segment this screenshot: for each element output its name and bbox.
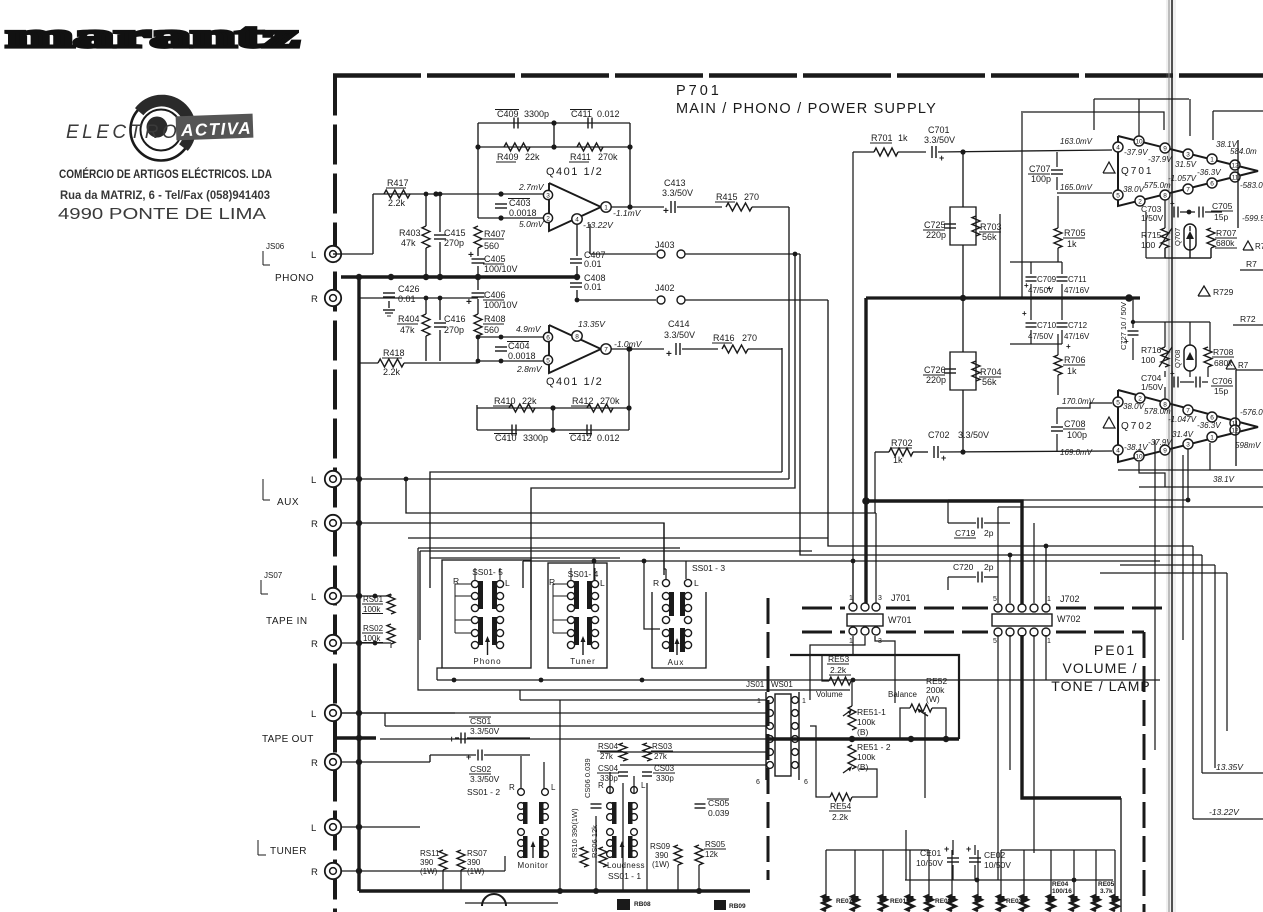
svg-text:RE03: RE03 bbox=[1006, 898, 1023, 905]
svg-text:J701: J701 bbox=[891, 593, 911, 603]
svg-text:TAPE OUT: TAPE OUT bbox=[262, 734, 314, 745]
volume wires bbox=[822, 636, 853, 681]
svg-text:2.2k: 2.2k bbox=[388, 198, 406, 208]
marantz logo bbox=[6, 18, 299, 55]
svg-text:3: 3 bbox=[1186, 151, 1190, 158]
heavy bus right vertical bbox=[864, 298, 867, 603]
monitor loudness outer box bbox=[505, 780, 648, 876]
svg-text:38.0V: 38.0V bbox=[1123, 185, 1145, 194]
switch SS01-4 left stubs bbox=[553, 583, 567, 585]
top dashed border bbox=[333, 73, 1263, 78]
switch Loudness arrow bbox=[621, 843, 623, 858]
svg-text:0.0018: 0.0018 bbox=[509, 208, 537, 218]
svg-text:5: 5 bbox=[993, 638, 997, 645]
svg-text:+: + bbox=[1066, 342, 1071, 351]
capacitor C416 bbox=[434, 322, 446, 324]
svg-text:L: L bbox=[551, 783, 556, 792]
switch SS01-3 stems bbox=[665, 569, 667, 579]
svg-text:31.5V: 31.5V bbox=[1175, 160, 1197, 169]
pin 5 bbox=[543, 355, 552, 364]
wires to bottom bus bbox=[559, 730, 561, 891]
capacitor C725 bbox=[950, 207, 963, 245]
svg-text:15p: 15p bbox=[1214, 386, 1228, 396]
wire loop above Q701 B bbox=[1094, 98, 1189, 100]
svg-text:+: + bbox=[944, 844, 949, 854]
svg-text:R729: R729 bbox=[1213, 287, 1234, 297]
op-amp Q401a triangle bbox=[549, 183, 601, 231]
connector J701 top pins bbox=[849, 603, 857, 611]
svg-text:C410: C410 bbox=[495, 433, 517, 443]
svg-text:Q702: Q702 bbox=[1121, 421, 1153, 432]
svg-text:1: 1 bbox=[802, 698, 806, 705]
svg-text:56k: 56k bbox=[982, 377, 997, 387]
boxed label R7xx bbox=[1240, 269, 1263, 271]
svg-text:R: R bbox=[311, 867, 318, 878]
JS01 feed corners bbox=[519, 690, 521, 700]
svg-text:RE04: RE04 bbox=[1052, 881, 1069, 888]
svg-text:3.3/50V: 3.3/50V bbox=[470, 774, 500, 784]
heavy bus corner to J702 bbox=[866, 501, 1022, 604]
svg-text:-1.1mV: -1.1mV bbox=[613, 208, 642, 218]
heavy phono bus horizontal bbox=[341, 275, 577, 278]
svg-text:L: L bbox=[600, 578, 605, 588]
capacitor C406 electrolytic bbox=[477, 277, 479, 290]
capacitor C404 bbox=[495, 346, 507, 348]
wire pin2 bbox=[478, 217, 543, 219]
38.1V wire lower bbox=[1118, 469, 1263, 471]
svg-text:Tuner: Tuner bbox=[570, 657, 596, 666]
svg-text:6: 6 bbox=[756, 779, 760, 786]
svg-text:RS03: RS03 bbox=[652, 742, 673, 751]
switch SS01-5 stems bbox=[474, 568, 476, 580]
svg-text:390: 390 bbox=[467, 858, 481, 867]
switch SS01- 4 contacts bbox=[567, 580, 574, 587]
wire y513 bbox=[406, 479, 876, 513]
svg-text:13.35V: 13.35V bbox=[1216, 762, 1244, 772]
capacitor C410 bbox=[511, 425, 513, 436]
svg-text:C705: C705 bbox=[1212, 201, 1233, 211]
svg-text:4: 4 bbox=[1116, 447, 1120, 454]
svg-text:R409: R409 bbox=[497, 152, 519, 162]
svg-text:3: 3 bbox=[1186, 441, 1190, 448]
svg-text:2.8mV: 2.8mV bbox=[516, 364, 543, 374]
svg-text:J702: J702 bbox=[1060, 594, 1080, 604]
svg-text:-37.9V: -37.9V bbox=[1124, 148, 1148, 157]
svg-text:RE51-1: RE51-1 bbox=[857, 707, 886, 717]
svg-text:C404: C404 bbox=[508, 341, 530, 351]
svg-text:163.0mV: 163.0mV bbox=[1060, 137, 1093, 146]
svg-text:SS01 - 3: SS01 - 3 bbox=[692, 563, 725, 573]
svg-text:C406: C406 bbox=[484, 290, 506, 300]
svg-text:WS01: WS01 bbox=[771, 680, 793, 689]
svg-text:C710: C710 bbox=[1037, 321, 1057, 330]
svg-text:Q708: Q708 bbox=[1173, 350, 1182, 368]
svg-text:680k: 680k bbox=[1216, 238, 1235, 248]
pin 3 bbox=[543, 190, 552, 199]
svg-text:C702: C702 bbox=[928, 430, 950, 440]
svg-text:390: 390 bbox=[420, 858, 434, 867]
balance drop wire bbox=[924, 712, 926, 798]
svg-text:38.0V: 38.0V bbox=[1123, 402, 1145, 411]
svg-text:CE02: CE02 bbox=[984, 850, 1006, 860]
svg-text:VOLUME /: VOLUME / bbox=[1063, 660, 1138, 676]
svg-text:3.3/50V: 3.3/50V bbox=[470, 726, 500, 736]
wire y214 top link bbox=[963, 213, 1000, 215]
svg-text:+: + bbox=[466, 752, 471, 762]
svg-text:9: 9 bbox=[1163, 145, 1167, 152]
ground C426 bbox=[383, 309, 395, 311]
capacitor C706 bbox=[1195, 377, 1197, 388]
boxed label R72 bbox=[1233, 324, 1263, 326]
wire tape in to switches bbox=[391, 588, 440, 594]
svg-text:2.2k: 2.2k bbox=[383, 367, 401, 377]
pot RE54 bbox=[830, 793, 852, 801]
svg-text:3: 3 bbox=[878, 595, 882, 602]
feedback resistor line lower bbox=[477, 407, 629, 409]
svg-text:560: 560 bbox=[484, 241, 499, 251]
resistor R704 bbox=[963, 352, 976, 390]
svg-text:12k: 12k bbox=[705, 850, 719, 859]
capacitor C708 bbox=[1051, 426, 1063, 428]
svg-text:JS06: JS06 bbox=[266, 242, 285, 251]
svg-text:R705: R705 bbox=[1064, 228, 1086, 238]
svg-text:10/50V: 10/50V bbox=[984, 860, 1011, 870]
svg-text:270p: 270p bbox=[444, 238, 464, 248]
svg-text:TONE / LAMP: TONE / LAMP bbox=[1051, 678, 1150, 694]
svg-text:5: 5 bbox=[993, 596, 997, 603]
bottom wire y880 bbox=[905, 879, 1113, 881]
switch SS01- 5 arrow bbox=[487, 638, 489, 655]
capacitor C726 R704 box bbox=[962, 298, 964, 352]
svg-text:L: L bbox=[311, 250, 316, 261]
svg-text:0.012: 0.012 bbox=[597, 109, 620, 119]
heavy phono ground bus vertical bbox=[357, 277, 360, 891]
svg-text:C411: C411 bbox=[571, 109, 592, 119]
svg-text:0.01: 0.01 bbox=[584, 282, 602, 292]
svg-text:270: 270 bbox=[742, 333, 757, 343]
wire q701 out bbox=[1240, 170, 1258, 172]
svg-text:0.01: 0.01 bbox=[398, 294, 416, 304]
wire pin5 feed Q702 bbox=[1057, 403, 1112, 408]
svg-text:330p: 330p bbox=[600, 774, 618, 783]
svg-text:C708: C708 bbox=[1064, 419, 1086, 429]
switch SS01- 4 arrow bbox=[582, 638, 584, 655]
svg-text:169.0mV: 169.0mV bbox=[1060, 448, 1093, 457]
svg-text:22k: 22k bbox=[522, 396, 537, 406]
svg-text:R415: R415 bbox=[716, 192, 738, 202]
svg-text:SS01- 5: SS01- 5 bbox=[472, 567, 503, 577]
right area verticals bbox=[1189, 99, 1191, 136]
op-amp Q701 triangle bbox=[1118, 136, 1258, 206]
svg-text:+: + bbox=[1124, 337, 1129, 346]
svg-text:RS09: RS09 bbox=[650, 842, 671, 851]
svg-text:R716: R716 bbox=[1141, 345, 1162, 355]
wire pin6 pin5 bbox=[478, 336, 543, 338]
wire tuner R bbox=[341, 870, 505, 872]
right lower horizontals bbox=[1120, 564, 1215, 566]
svg-text:-1.047V: -1.047V bbox=[1168, 415, 1197, 424]
svg-text:2: 2 bbox=[546, 215, 550, 222]
connector J702 top pins bbox=[994, 604, 1002, 612]
svg-text:ELECTRO: ELECTRO bbox=[66, 122, 180, 143]
svg-text:RS05: RS05 bbox=[705, 840, 726, 849]
warning R7 right bbox=[1243, 241, 1253, 250]
svg-text:J402: J402 bbox=[655, 283, 675, 293]
svg-text:+: + bbox=[966, 844, 971, 854]
Q701 pins top bbox=[1113, 142, 1123, 152]
svg-text:ACTIVA: ACTIVA bbox=[180, 119, 253, 141]
switch SS01-3 contacts bbox=[662, 592, 669, 599]
svg-text:2.2k: 2.2k bbox=[830, 665, 847, 675]
svg-text:C706: C706 bbox=[1212, 376, 1233, 386]
svg-text:C413: C413 bbox=[664, 178, 686, 188]
capacitor C409 bbox=[513, 118, 515, 129]
svg-text:+: + bbox=[666, 349, 672, 360]
connector JS01 pins bbox=[767, 697, 774, 704]
svg-text:1: 1 bbox=[1047, 596, 1051, 603]
svg-text:Rua da MATRIZ, 6 - Tel/Fax (: Rua da MATRIZ, 6 - Tel/Fax (058)941403 bbox=[60, 190, 270, 202]
switch SS01-5 left stubs bbox=[455, 583, 471, 585]
svg-text:Loudness: Loudness bbox=[607, 861, 645, 870]
svg-text:marantz: marantz bbox=[6, 18, 299, 55]
resistor R708 bbox=[1204, 347, 1212, 367]
svg-text:598mV: 598mV bbox=[1235, 441, 1261, 450]
svg-text:RE01: RE01 bbox=[890, 898, 907, 905]
svg-text:-13.22V: -13.22V bbox=[583, 220, 614, 230]
right lower boxes bbox=[1202, 772, 1263, 774]
svg-text:RS10 390(1W): RS10 390(1W) bbox=[570, 808, 579, 858]
svg-text:270k: 270k bbox=[598, 152, 618, 162]
svg-text:CS02: CS02 bbox=[470, 764, 492, 774]
pin 6 bbox=[543, 332, 552, 341]
wire to heavy bus bbox=[962, 245, 964, 298]
dashed PE01 right border bbox=[1143, 632, 1146, 912]
svg-text:+: + bbox=[1170, 199, 1175, 208]
svg-text:584.0m: 584.0m bbox=[1230, 147, 1257, 156]
connector J701 bottom pins bbox=[849, 627, 857, 635]
switch area nested wire box inner bbox=[430, 557, 620, 559]
wire aux R bbox=[341, 523, 664, 575]
svg-text:SS01 - 1: SS01 - 1 bbox=[608, 871, 641, 881]
feedback cap line upper bbox=[478, 122, 630, 124]
svg-text:5: 5 bbox=[546, 357, 550, 364]
svg-text:Aux: Aux bbox=[668, 658, 685, 667]
svg-text:5.0mV: 5.0mV bbox=[519, 219, 545, 229]
connector W702 box bbox=[992, 614, 1052, 626]
bottom heavy bus bbox=[359, 889, 750, 892]
svg-text:C405: C405 bbox=[484, 254, 506, 264]
switch Loudness contacts bbox=[607, 803, 614, 810]
svg-text:Balance: Balance bbox=[888, 690, 917, 699]
switch L stems from y561 bbox=[593, 561, 595, 580]
svg-text:C414: C414 bbox=[668, 319, 690, 329]
svg-text:RS04: RS04 bbox=[598, 742, 619, 751]
connector J702 bottom pins bbox=[994, 628, 1002, 636]
Q701 lower wires bbox=[1164, 212, 1166, 228]
svg-text:L: L bbox=[641, 781, 646, 790]
dashed PE01 left border bbox=[767, 598, 770, 880]
wire tape out L bbox=[341, 712, 455, 714]
svg-text:C709: C709 bbox=[1037, 275, 1057, 284]
Q701 pins bottom bbox=[1113, 190, 1123, 200]
svg-text:Q401 1/2: Q401 1/2 bbox=[546, 376, 603, 388]
Q702 warning label bbox=[1103, 417, 1115, 428]
svg-text:(B): (B) bbox=[857, 762, 869, 772]
medium bus loop y655 bbox=[790, 655, 959, 739]
svg-text:C412: C412 bbox=[570, 433, 592, 443]
wires J702 above bbox=[997, 577, 999, 603]
resistor R411 bbox=[577, 143, 603, 151]
right box Q702 bbox=[1235, 370, 1237, 466]
svg-text:100k: 100k bbox=[857, 717, 876, 727]
resistor R706 bbox=[1054, 355, 1062, 375]
svg-text:270: 270 bbox=[744, 192, 759, 202]
svg-text:MAIN / PHONO / POWER SUPPLY: MAIN / PHONO / POWER SUPPLY bbox=[676, 101, 937, 117]
svg-text:2p: 2p bbox=[984, 562, 994, 572]
svg-text:6: 6 bbox=[546, 334, 550, 341]
svg-text:RE05: RE05 bbox=[1098, 881, 1115, 888]
warning R72x bbox=[1226, 360, 1236, 369]
caps cluster stubs bbox=[1030, 262, 1032, 274]
svg-text:-599.5: -599.5 bbox=[1242, 214, 1263, 223]
svg-text:R416: R416 bbox=[713, 333, 735, 343]
svg-text:RE51 - 2: RE51 - 2 bbox=[857, 742, 891, 752]
svg-text:C726: C726 bbox=[924, 365, 946, 375]
svg-text:+: + bbox=[1170, 369, 1175, 378]
svg-text:1: 1 bbox=[757, 698, 761, 705]
svg-text:5: 5 bbox=[1116, 192, 1120, 199]
svg-text:PHONO: PHONO bbox=[275, 273, 314, 284]
svg-text:+: + bbox=[466, 297, 472, 308]
svg-text:TAPE IN: TAPE IN bbox=[266, 616, 308, 627]
wire pin4 down bbox=[576, 224, 578, 248]
resistor R418 bbox=[359, 362, 378, 364]
svg-text:R707: R707 bbox=[1216, 228, 1237, 238]
svg-text:7: 7 bbox=[604, 346, 608, 353]
svg-text:270p: 270p bbox=[444, 325, 464, 335]
resistor R408 bbox=[477, 299, 479, 314]
svg-text:170.0mV: 170.0mV bbox=[1062, 397, 1095, 406]
label R729 warning bbox=[1198, 286, 1210, 296]
svg-text:Q701: Q701 bbox=[1121, 166, 1153, 177]
resistor R412 bbox=[587, 404, 613, 412]
svg-text:SS01 - 2: SS01 - 2 bbox=[467, 787, 500, 797]
svg-text:R7: R7 bbox=[1238, 361, 1249, 370]
svg-text:6: 6 bbox=[1210, 180, 1214, 187]
svg-text:47/16V: 47/16V bbox=[1064, 332, 1090, 341]
capacitor CS05 bbox=[695, 803, 706, 805]
svg-text:R: R bbox=[311, 639, 318, 650]
svg-text:-1.057V: -1.057V bbox=[1168, 174, 1197, 183]
svg-text:R412: R412 bbox=[572, 396, 594, 406]
resistor R416 bbox=[682, 348, 718, 350]
svg-text:R7: R7 bbox=[1246, 259, 1257, 269]
switch SS01-3 arrow bbox=[676, 640, 678, 655]
svg-text:100: 100 bbox=[1141, 240, 1155, 250]
svg-text:-38.1V: -38.1V bbox=[1124, 443, 1148, 452]
resistor R705 bbox=[1054, 228, 1062, 248]
wire right rail bbox=[1021, 111, 1023, 298]
svg-text:R704: R704 bbox=[980, 367, 1002, 377]
wire y561 bbox=[523, 560, 1160, 562]
svg-text:2.7mV: 2.7mV bbox=[518, 182, 545, 192]
svg-text:8: 8 bbox=[1163, 192, 1167, 199]
aux rail x644 bbox=[644, 561, 660, 629]
svg-text:220p: 220p bbox=[926, 230, 946, 240]
svg-text:R: R bbox=[311, 758, 318, 769]
Q701 warning label bbox=[1103, 162, 1115, 173]
wire feedback verticals bbox=[477, 123, 479, 218]
wire loop above Q701 A bbox=[1023, 112, 1164, 130]
stamp ACTIVA box bbox=[176, 114, 254, 141]
svg-text:1: 1 bbox=[849, 638, 853, 645]
svg-text:+: + bbox=[1022, 309, 1027, 318]
wire pin7 output bbox=[611, 348, 664, 350]
svg-text:3.3/50V: 3.3/50V bbox=[958, 430, 989, 440]
svg-text:100: 100 bbox=[1141, 355, 1155, 365]
wire J403 loop y488 bbox=[531, 254, 795, 620]
svg-text:578.0m: 578.0m bbox=[1144, 407, 1171, 416]
svg-text:3300p: 3300p bbox=[524, 109, 549, 119]
wire tape in R bbox=[341, 642, 391, 644]
feedback resistor line upper bbox=[478, 146, 630, 148]
wire pin3 input bbox=[373, 193, 543, 195]
heavy bus below J702 bbox=[1022, 635, 1121, 798]
svg-text:+: + bbox=[663, 206, 669, 217]
svg-text:R410: R410 bbox=[494, 396, 516, 406]
svg-text:RS02: RS02 bbox=[363, 624, 384, 633]
svg-text:10: 10 bbox=[1135, 453, 1143, 460]
resistor R404 bbox=[422, 314, 430, 336]
svg-text:-576.0: -576.0 bbox=[1240, 408, 1263, 417]
bottom components row bbox=[825, 850, 827, 896]
wire C726 down bbox=[962, 390, 964, 452]
capacitor C405 electrolytic bbox=[477, 248, 479, 256]
svg-text:100/10V: 100/10V bbox=[484, 264, 518, 274]
heavy tape-out stub bbox=[333, 736, 376, 739]
svg-text:L: L bbox=[694, 578, 699, 588]
wire pin5 feed Q701 bbox=[1057, 192, 1112, 194]
Q702 pins top bbox=[1113, 397, 1123, 407]
switch area nested wire box outer bbox=[418, 547, 680, 549]
svg-text:3300p: 3300p bbox=[523, 433, 548, 443]
switch Monitor arrow bbox=[532, 843, 534, 858]
svg-text:L: L bbox=[311, 592, 316, 603]
svg-text:31.4V: 31.4V bbox=[1172, 430, 1194, 439]
svg-text:R701: R701 bbox=[871, 133, 893, 143]
svg-text:-37.9V: -37.9V bbox=[1148, 438, 1172, 447]
dashed PE01 border row2 bbox=[802, 631, 845, 634]
switch Monitor contacts bbox=[518, 803, 525, 810]
wires into JS01 from left bbox=[520, 699, 766, 701]
wire tape out R bbox=[341, 761, 430, 763]
svg-text:Phono: Phono bbox=[473, 657, 501, 666]
pin 4 bbox=[572, 214, 582, 224]
svg-text:2p: 2p bbox=[984, 528, 994, 538]
svg-text:-36.3V: -36.3V bbox=[1197, 421, 1221, 430]
feedback cap line lower bbox=[477, 429, 629, 431]
svg-text:-36.3V: -36.3V bbox=[1197, 168, 1221, 177]
svg-text:Volume: Volume bbox=[816, 690, 843, 699]
wire R415 loop down to AUX L bbox=[788, 207, 790, 479]
svg-text:4990 PONTE DE LIMA: 4990 PONTE DE LIMA bbox=[58, 206, 267, 223]
svg-text:Monitor: Monitor bbox=[518, 861, 549, 870]
wire loop right C bbox=[1213, 110, 1263, 112]
wire y680 long bbox=[437, 679, 1160, 681]
wire pin6 input bbox=[372, 254, 374, 318]
resistor R409 bbox=[504, 143, 530, 151]
svg-text:+: + bbox=[468, 250, 474, 261]
